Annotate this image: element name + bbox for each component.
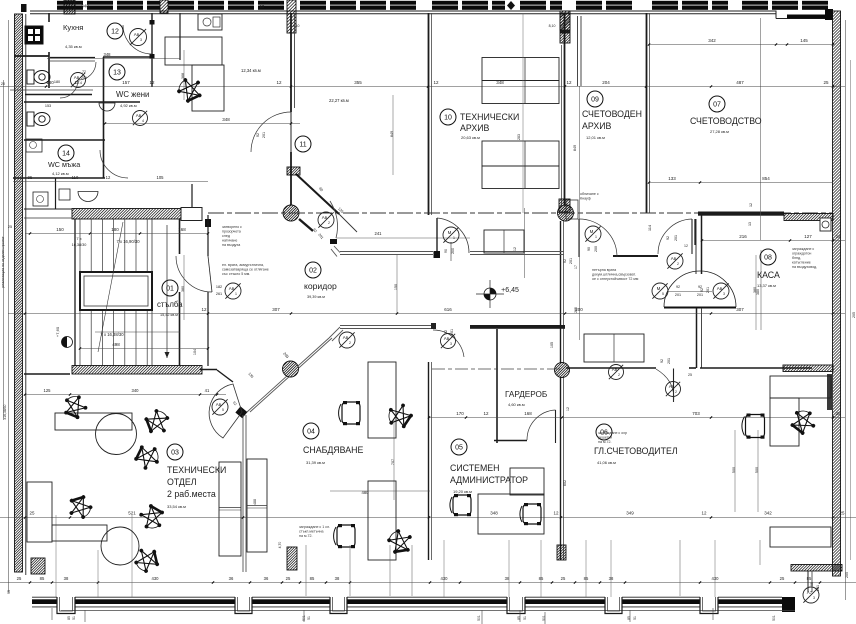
svg-text:153: 153 xyxy=(45,104,51,108)
svg-text:2: 2 xyxy=(677,262,679,266)
svg-text:90: 90 xyxy=(587,247,591,251)
svg-text:85: 85 xyxy=(807,576,812,581)
svg-text:501: 501 xyxy=(772,615,776,621)
svg-text:25: 25 xyxy=(688,373,692,377)
svg-text:602: 602 xyxy=(563,480,567,486)
svg-text:12: 12 xyxy=(684,244,688,248)
svg-text:самозатваряща се отлягане: самозатваряща се отлягане xyxy=(222,268,269,272)
svg-text:8,10: 8,10 xyxy=(293,24,300,28)
svg-text:WC жени: WC жени xyxy=(116,90,149,99)
svg-text:27,28 кв.м: 27,28 кв.м xyxy=(710,129,729,134)
svg-text:4: 4 xyxy=(80,81,82,85)
svg-text:11: 11 xyxy=(299,142,306,149)
svg-text:заграждане с: заграждане с xyxy=(792,247,814,251)
svg-text:105: 105 xyxy=(550,342,554,348)
svg-text:201: 201 xyxy=(569,258,573,264)
svg-text:12: 12 xyxy=(149,80,155,85)
svg-text:500: 500 xyxy=(732,467,736,473)
svg-text:41: 41 xyxy=(205,388,210,393)
svg-text:Ав: Ав xyxy=(322,215,328,220)
svg-text:180: 180 xyxy=(46,80,54,85)
svg-text:205: 205 xyxy=(845,572,849,578)
svg-text:85: 85 xyxy=(310,576,315,581)
svg-text:283: 283 xyxy=(517,134,521,140)
svg-text:12: 12 xyxy=(513,247,517,251)
svg-text:205: 205 xyxy=(852,312,856,318)
svg-text:349: 349 xyxy=(626,511,634,516)
svg-text:04: 04 xyxy=(307,429,315,436)
svg-text:7 х 16,90/30: 7 х 16,90/30 xyxy=(116,239,140,244)
svg-text:616: 616 xyxy=(444,307,452,312)
svg-text:СЧЕТОВОДСТВО: СЧЕТОВОДСТВО xyxy=(690,116,762,126)
svg-text:4,60 кв.м: 4,60 кв.м xyxy=(508,402,525,407)
svg-text:307: 307 xyxy=(736,307,744,312)
svg-text:Ав: Ав xyxy=(444,336,450,341)
svg-text:133: 133 xyxy=(668,176,676,181)
svg-text:105: 105 xyxy=(157,175,165,180)
svg-text:201: 201 xyxy=(262,132,266,138)
svg-text:заграждане с 1 сл.: заграждане с 1 сл. xyxy=(299,525,330,529)
svg-text:92: 92 xyxy=(444,330,448,334)
svg-text:Ав: Ав xyxy=(717,286,723,291)
svg-text:заграждане с охр: заграждане с охр xyxy=(598,431,627,435)
svg-text:25: 25 xyxy=(561,576,566,581)
svg-text:251: 251 xyxy=(816,585,820,591)
svg-text:92: 92 xyxy=(676,285,680,289)
svg-text:коридор: коридор xyxy=(304,281,337,291)
svg-text:51: 51 xyxy=(633,616,637,620)
svg-text:180: 180 xyxy=(54,80,60,84)
svg-text:12: 12 xyxy=(74,80,80,85)
svg-text:498: 498 xyxy=(112,342,120,347)
svg-text:затворено с: затворено с xyxy=(222,225,242,229)
svg-text:12: 12 xyxy=(566,407,570,411)
svg-text:368: 368 xyxy=(181,73,185,79)
svg-text:WC мъжа: WC мъжа xyxy=(48,160,80,169)
svg-text:ТЕХНИЧЕСКИ: ТЕХНИЧЕСКИ xyxy=(460,112,519,122)
svg-text:СЧЕТОВОДЕН: СЧЕТОВОДЕН xyxy=(582,109,642,119)
svg-text:Ав: Ав xyxy=(134,32,140,37)
svg-text:25: 25 xyxy=(839,511,845,516)
svg-text:90: 90 xyxy=(444,249,448,253)
svg-text:430: 430 xyxy=(152,576,160,581)
svg-text:85: 85 xyxy=(539,576,544,581)
svg-text:2: 2 xyxy=(675,390,677,394)
svg-text:501: 501 xyxy=(477,615,481,621)
svg-text:25: 25 xyxy=(29,511,35,516)
svg-text:7 х: 7 х xyxy=(76,236,81,241)
svg-text:707: 707 xyxy=(391,459,395,465)
svg-text:216: 216 xyxy=(739,234,747,239)
svg-text:380: 380 xyxy=(181,286,185,292)
svg-text:3: 3 xyxy=(723,292,725,296)
svg-text:95: 95 xyxy=(28,175,33,180)
svg-text:25: 25 xyxy=(17,576,22,581)
svg-text:01: 01 xyxy=(166,286,174,293)
svg-text:решетки: решетки xyxy=(598,436,612,440)
svg-text:157: 157 xyxy=(122,80,130,85)
svg-text:92: 92 xyxy=(256,133,260,137)
svg-text:12: 12 xyxy=(201,307,207,312)
svg-text:3: 3 xyxy=(813,596,815,600)
svg-text:488: 488 xyxy=(253,499,257,505)
svg-text:2 раб.места: 2 раб.места xyxy=(167,489,216,499)
svg-text:150: 150 xyxy=(56,227,64,232)
svg-text:08: 08 xyxy=(764,255,772,262)
svg-text:22,27 кв.м: 22,27 кв.м xyxy=(329,98,349,103)
svg-text:12: 12 xyxy=(433,80,439,85)
svg-text:51: 51 xyxy=(72,616,76,620)
svg-text:85: 85 xyxy=(584,576,589,581)
svg-text:36: 36 xyxy=(229,576,234,581)
svg-text:17: 17 xyxy=(574,265,578,269)
svg-text:+7,60: +7,60 xyxy=(55,326,60,337)
svg-text:ОТДЕЛ: ОТДЕЛ xyxy=(167,477,197,487)
svg-text:20: 20 xyxy=(1,82,5,86)
svg-text:25: 25 xyxy=(835,411,841,416)
svg-text:51: 51 xyxy=(307,616,311,620)
svg-text:Ав: Ав xyxy=(612,367,618,372)
svg-text:Ав: Ав xyxy=(671,256,677,261)
svg-text:докум.штлична,свързоват.: докум.штлична,свързоват. xyxy=(592,273,636,277)
svg-text:12: 12 xyxy=(483,411,489,416)
svg-text:5: 5 xyxy=(662,292,664,296)
svg-text:125: 125 xyxy=(44,388,52,393)
svg-text:реализация по отделен проект: реализация по отделен проект xyxy=(1,236,5,288)
svg-text:200: 200 xyxy=(575,307,583,312)
svg-text:348: 348 xyxy=(490,511,498,516)
svg-text:на м.72.: на м.72. xyxy=(299,534,312,538)
svg-text:12: 12 xyxy=(106,175,111,180)
svg-text:180: 180 xyxy=(111,227,119,232)
svg-text:430: 430 xyxy=(712,576,720,581)
svg-text:ограждотон: ограждотон xyxy=(792,252,811,256)
svg-text:204: 204 xyxy=(602,80,610,85)
svg-text:110: 110 xyxy=(72,175,79,180)
svg-text:М: М xyxy=(448,230,452,235)
svg-text:Ав: Ав xyxy=(669,384,675,389)
svg-text:на въздуховод,: на въздуховод, xyxy=(792,265,817,269)
svg-text:41,06 кв.м: 41,06 кв.м xyxy=(597,460,616,465)
svg-text:12: 12 xyxy=(566,80,572,85)
svg-text:487: 487 xyxy=(736,80,744,85)
svg-text:02: 02 xyxy=(309,268,317,275)
svg-text:500: 500 xyxy=(755,467,759,473)
svg-text:стъкл.метъчна: стъкл.метъчна xyxy=(299,530,324,534)
svg-text:СИСТЕМЕН: СИСТЕМЕН xyxy=(450,463,500,473)
svg-text:10: 10 xyxy=(444,115,452,122)
svg-text:М: М xyxy=(657,286,661,291)
svg-text:+6,45: +6,45 xyxy=(501,287,519,294)
svg-text:09: 09 xyxy=(591,97,599,104)
svg-text:25: 25 xyxy=(836,234,841,239)
svg-text:150: 150 xyxy=(394,284,398,290)
svg-text:92: 92 xyxy=(700,288,704,292)
svg-text:след: след xyxy=(222,234,231,238)
svg-text:Ав: Ав xyxy=(343,335,349,340)
svg-text:168: 168 xyxy=(524,411,532,416)
svg-text:ТЕХНИЧЕСКИ: ТЕХНИЧЕСКИ xyxy=(167,465,226,475)
svg-text:38: 38 xyxy=(609,576,614,581)
svg-text:12: 12 xyxy=(260,4,265,9)
svg-text:Ав: Ав xyxy=(229,286,235,291)
svg-text:261: 261 xyxy=(216,292,222,296)
svg-text:обличане с: обличане с xyxy=(580,192,599,196)
svg-text:19,20 кв.м: 19,20 кв.м xyxy=(453,489,472,494)
svg-text:170: 170 xyxy=(456,411,464,416)
svg-text:12: 12 xyxy=(276,80,282,85)
svg-text:ел. врата, акмурътлична,: ел. врата, акмурътлична, xyxy=(222,263,264,267)
svg-text:241: 241 xyxy=(375,231,383,236)
svg-text:201: 201 xyxy=(674,235,678,241)
svg-text:25: 25 xyxy=(8,225,12,229)
svg-text:1: 1 xyxy=(235,292,237,296)
svg-text:201: 201 xyxy=(450,329,454,335)
svg-text:127: 127 xyxy=(804,234,812,239)
svg-text:стълба: стълба xyxy=(157,300,183,309)
svg-text:348: 348 xyxy=(222,117,230,122)
svg-text:342: 342 xyxy=(708,38,716,43)
svg-text:849: 849 xyxy=(390,131,394,137)
svg-text:201: 201 xyxy=(667,358,671,364)
svg-text:12: 12 xyxy=(701,511,707,516)
svg-text:12,34 кв.м: 12,34 кв.м xyxy=(241,68,261,73)
svg-text:145: 145 xyxy=(800,38,808,43)
svg-text:31,39 кв.м: 31,39 кв.м xyxy=(306,460,325,465)
svg-text:7 х 16,38/30: 7 х 16,38/30 xyxy=(100,332,124,337)
svg-text:854: 854 xyxy=(762,176,770,181)
svg-text:92: 92 xyxy=(563,259,567,263)
svg-text:13: 13 xyxy=(113,70,121,77)
svg-text:прозорчета: прозорчета xyxy=(222,230,241,234)
svg-text:14: 14 xyxy=(62,151,70,158)
svg-text:36: 36 xyxy=(264,576,269,581)
svg-text:x16,38/30: x16,38/30 xyxy=(3,404,7,419)
svg-text:блнд,: блнд, xyxy=(792,256,801,260)
svg-text:85: 85 xyxy=(67,616,71,620)
svg-text:АРХИВ: АРХИВ xyxy=(460,123,490,133)
svg-text:4,12 кв.м: 4,12 кв.м xyxy=(52,171,69,176)
svg-text:104: 104 xyxy=(193,349,197,355)
svg-text:95: 95 xyxy=(7,590,11,594)
svg-text:05: 05 xyxy=(455,445,463,452)
svg-text:8,10: 8,10 xyxy=(549,24,556,28)
svg-text:849: 849 xyxy=(573,145,577,151)
svg-text:25: 25 xyxy=(286,576,291,581)
svg-text:25: 25 xyxy=(780,576,785,581)
svg-text:85: 85 xyxy=(517,616,521,620)
svg-text:201: 201 xyxy=(697,293,703,297)
svg-text:380: 380 xyxy=(753,287,757,293)
svg-text:51: 51 xyxy=(523,616,527,620)
svg-text:168: 168 xyxy=(178,227,186,232)
svg-text:38: 38 xyxy=(64,576,69,581)
svg-text:201: 201 xyxy=(675,293,681,297)
svg-text:38: 38 xyxy=(335,576,340,581)
svg-text:3: 3 xyxy=(450,342,452,346)
svg-text:1: 1 xyxy=(453,236,455,240)
svg-text:342: 342 xyxy=(764,511,772,516)
svg-text:114: 114 xyxy=(648,225,652,231)
svg-text:355: 355 xyxy=(354,80,362,85)
svg-text:92: 92 xyxy=(666,236,670,240)
svg-text:М: М xyxy=(590,229,594,234)
svg-text:03: 03 xyxy=(171,450,179,457)
svg-text:КАСА: КАСА xyxy=(757,270,780,280)
svg-text:92: 92 xyxy=(660,359,664,363)
svg-text:4,92 кв.м: 4,92 кв.м xyxy=(120,103,137,108)
svg-text:3: 3 xyxy=(140,38,142,42)
svg-text:13: 13 xyxy=(748,222,752,226)
svg-text:СНАБДЯВАНЕ: СНАБДЯВАНЕ xyxy=(303,445,363,455)
svg-text:348: 348 xyxy=(104,52,112,57)
svg-text:85: 85 xyxy=(40,576,45,581)
svg-text:4,35 кв.м: 4,35 кв.м xyxy=(65,44,82,49)
svg-text:2: 2 xyxy=(349,341,351,345)
svg-text:ГАРДЕРОБ: ГАРДЕРОБ xyxy=(505,390,547,399)
svg-text:25: 25 xyxy=(823,80,829,85)
svg-text:501: 501 xyxy=(542,615,546,621)
svg-text:307: 307 xyxy=(272,307,280,312)
svg-text:4: 4 xyxy=(142,119,144,123)
svg-text:Ав: Ав xyxy=(216,402,222,407)
svg-text:430: 430 xyxy=(441,576,449,581)
svg-text:2: 2 xyxy=(618,373,620,377)
svg-text:16,38/30: 16,38/30 xyxy=(72,243,87,247)
svg-text:5: 5 xyxy=(222,408,224,412)
svg-text:4,70: 4,70 xyxy=(278,542,282,549)
svg-text:12: 12 xyxy=(553,511,559,516)
svg-text:петърна врата: петърна врата xyxy=(592,268,616,272)
svg-text:Кнауф: Кнауф xyxy=(580,197,591,201)
svg-text:33,54 кв.м: 33,54 кв.м xyxy=(167,504,186,509)
svg-text:12: 12 xyxy=(111,29,119,36)
svg-text:Ав: Ав xyxy=(136,113,142,118)
svg-text:07: 07 xyxy=(713,102,721,109)
svg-text:348: 348 xyxy=(81,4,89,9)
svg-text:със стъкло 5 мм.: със стъкло 5 мм. xyxy=(222,272,250,276)
svg-text:катъгление: катъгление xyxy=(792,261,811,265)
svg-text:натичане: натичане xyxy=(222,239,237,243)
svg-text:20,63 кв.м: 20,63 кв.м xyxy=(461,135,480,140)
svg-text:13,37 кв.м: 13,37 кв.м xyxy=(757,283,776,288)
svg-text:ГЛ.СЧЕТОВОДИТЕЛ: ГЛ.СЧЕТОВОДИТЕЛ xyxy=(594,446,678,456)
svg-text:182: 182 xyxy=(216,285,222,289)
svg-text:ое с огнеустойчивост 72 мм: ое с огнеустойчивост 72 мм xyxy=(592,277,639,281)
svg-text:85: 85 xyxy=(627,616,631,620)
svg-text:200: 200 xyxy=(594,246,598,252)
svg-text:Кухня: Кухня xyxy=(63,23,83,32)
svg-text:АРХИВ: АРХИВ xyxy=(582,121,612,131)
svg-text:340: 340 xyxy=(132,388,140,393)
svg-text:201: 201 xyxy=(706,287,710,293)
svg-text:12,01 кв.м: 12,01 кв.м xyxy=(586,135,605,140)
svg-text:200: 200 xyxy=(451,248,455,254)
svg-text:на въздуха: на въздуха xyxy=(222,243,240,247)
svg-text:2: 2 xyxy=(328,221,330,225)
svg-text:1: 1 xyxy=(595,235,597,239)
svg-text:39,39 кв.м: 39,39 кв.м xyxy=(307,295,325,299)
svg-text:АДМИНИСТРАТОР: АДМИНИСТРАТОР xyxy=(450,475,528,485)
svg-text:521: 521 xyxy=(128,511,136,516)
svg-text:на м.72.: на м.72. xyxy=(598,440,611,444)
svg-text:12: 12 xyxy=(749,203,753,207)
svg-text:703: 703 xyxy=(692,411,700,416)
